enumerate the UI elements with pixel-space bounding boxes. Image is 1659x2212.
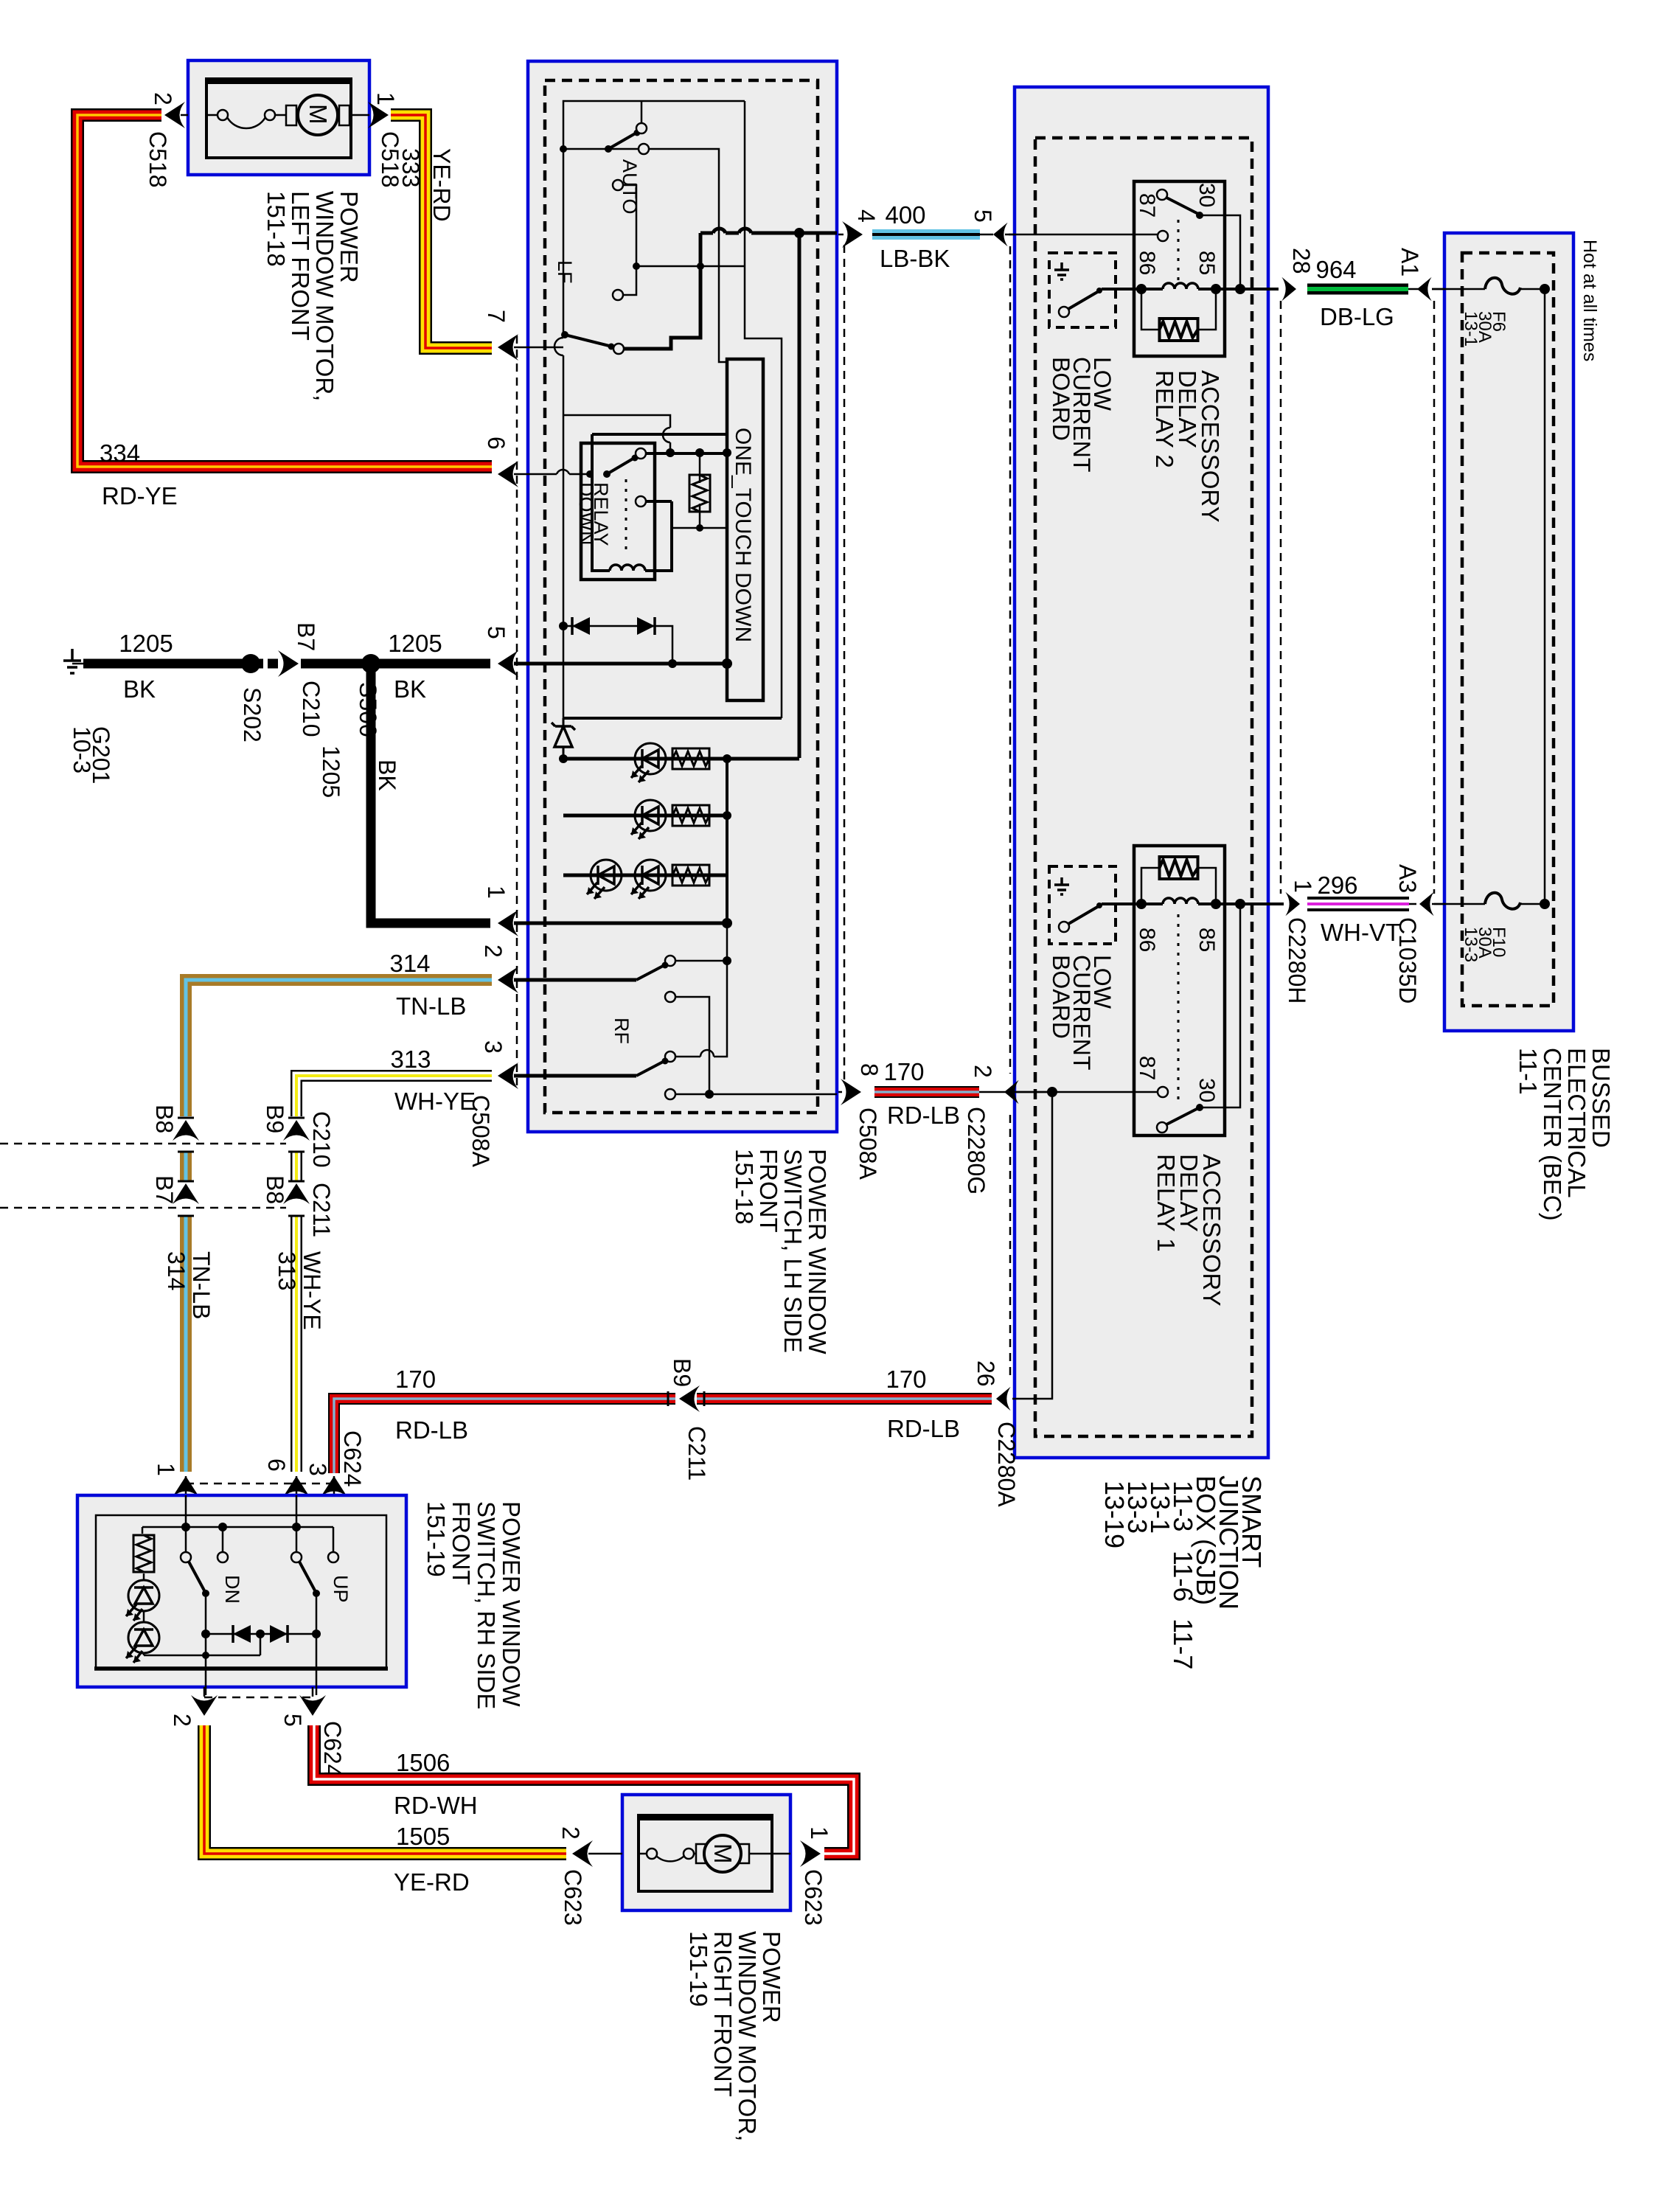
pin 1 internal wire <box>514 918 732 928</box>
svg-text:BK: BK <box>394 675 426 703</box>
RF blade up <box>514 978 636 982</box>
wire 313 WH-YE segment C210-C211 <box>291 1152 302 1180</box>
svg-text:POWER WINDOW: POWER WINDOW <box>804 1149 831 1354</box>
motor RF armature M <box>704 1835 741 1872</box>
svg-text:B7: B7 <box>151 1175 178 1204</box>
label ACCESSORY DELAY RELAY 2 <box>1151 370 1224 523</box>
svg-text:13-1: 13-1 <box>1461 311 1481 347</box>
label ACCESSORY DELAY RELAY 1 <box>1152 1154 1225 1307</box>
svg-text:RD-LB: RD-LB <box>887 1102 960 1129</box>
svg-text:1: 1 <box>806 1826 832 1840</box>
svg-text:B7: B7 <box>293 622 319 651</box>
accessory delay relay 2 <box>1009 181 1279 356</box>
svg-text:TN-LB: TN-LB <box>188 1251 215 1319</box>
svg-text:28: 28 <box>1288 248 1315 274</box>
connector C2280 dashed line right <box>1280 301 1282 894</box>
connector dashed lines C210 C211 between wires <box>0 1143 286 1145</box>
connector arrow B7 C210 <box>278 650 299 677</box>
LF/AUTO switch assembly rect <box>554 101 782 718</box>
svg-text:1: 1 <box>1290 880 1316 893</box>
wires relay down to one touch <box>592 434 731 532</box>
svg-text:11-6: 11-6 <box>1168 1551 1198 1601</box>
LED row B <box>563 800 731 839</box>
svg-text:3: 3 <box>305 1463 331 1476</box>
relay 2 resistor <box>1141 289 1216 330</box>
svg-text:C508A: C508A <box>855 1107 881 1180</box>
low current board 1 <box>1049 866 1116 944</box>
svg-text:DN: DN <box>221 1575 243 1604</box>
svg-text:YE-RD: YE-RD <box>428 148 455 222</box>
one touch down module box <box>727 359 763 700</box>
motor LF armature M <box>298 95 338 135</box>
ground G201 <box>63 649 83 673</box>
connector caps and arrows B8/B7 on 314 <box>173 1118 199 1216</box>
label LOW CURRENT BOARD 1 <box>1048 955 1116 1070</box>
svg-text:334: 334 <box>100 439 140 467</box>
connector arrow pin 5 <box>498 650 518 677</box>
svg-text:C623: C623 <box>800 1869 827 1926</box>
left rail lower section <box>563 717 782 720</box>
connector arrow pin 1 C518 <box>368 102 389 128</box>
smart junction box (SJB) <box>1015 87 1268 1458</box>
label POWER WINDOW SWITCH, RH SIDE FRONT 151-19 <box>422 1501 525 1709</box>
connector C2280 dashed line left <box>1009 246 1012 1380</box>
svg-text:C624: C624 <box>319 1721 346 1778</box>
connector arrow pin 5 SJB <box>993 223 1008 246</box>
AUTO/LF middle contacts <box>613 180 745 300</box>
svg-text:1506: 1506 <box>396 1749 450 1776</box>
svg-text:11-1: 11-1 <box>1514 1048 1542 1095</box>
relay down box <box>581 434 672 580</box>
svg-text:YE-RD: YE-RD <box>394 1868 470 1896</box>
svg-text:POWER: POWER <box>758 1931 785 2023</box>
connector arrow pin 8 <box>841 1079 861 1105</box>
wire 1205 BK branch to pin 1 <box>371 664 490 923</box>
svg-text:WH-YE: WH-YE <box>299 1251 325 1330</box>
wire 296 WH-VT <box>1307 897 1445 911</box>
svg-text:1205: 1205 <box>119 630 173 657</box>
relay down actuator dotted link <box>625 479 627 552</box>
svg-text:A1: A1 <box>1397 248 1423 276</box>
fuse F6 30A <box>1432 278 1550 294</box>
connector arrow pin 4 <box>842 221 863 248</box>
svg-text:UP: UP <box>330 1575 352 1603</box>
internal bus <box>142 1526 333 1528</box>
connector C624 dashed line bottom <box>204 1697 313 1699</box>
motor LF brushes <box>286 105 296 125</box>
motor RF wiring <box>639 1853 647 1855</box>
svg-text:B8: B8 <box>262 1175 288 1204</box>
svg-text:151-18: 151-18 <box>731 1149 758 1225</box>
svg-text:6: 6 <box>263 1458 290 1472</box>
connector arrow A1 <box>1417 277 1432 301</box>
svg-text:10-3: 10-3 <box>69 726 95 773</box>
wire 1505 YE-RD <box>204 1725 566 1854</box>
svg-text:RIGHT FRONT: RIGHT FRONT <box>709 1931 737 2097</box>
connector C508A dashed line left <box>516 335 518 1085</box>
connector arrow pin 1 C2280H <box>1285 892 1300 916</box>
svg-text:170: 170 <box>886 1366 926 1393</box>
svg-text:C518: C518 <box>145 131 171 188</box>
svg-text:11-7: 11-7 <box>1168 1618 1198 1669</box>
svg-text:LB-BK: LB-BK <box>880 245 950 272</box>
svg-text:C2280H: C2280H <box>1284 917 1310 1004</box>
svg-text:RELAY 1: RELAY 1 <box>1152 1154 1180 1252</box>
svg-text:M: M <box>709 1843 737 1864</box>
svg-text:400: 400 <box>885 201 925 229</box>
svg-text:85: 85 <box>1194 251 1219 275</box>
svg-text:1205: 1205 <box>318 745 344 798</box>
svg-text:BK: BK <box>374 759 400 791</box>
svg-text:2: 2 <box>150 92 176 105</box>
relay 1 coil <box>1102 902 1163 905</box>
svg-text:A3: A3 <box>1394 864 1421 893</box>
svg-text:B9: B9 <box>262 1105 288 1133</box>
bussed electrical center (BEC) box <box>1444 233 1573 1031</box>
wire 334 RD-YE <box>77 115 492 467</box>
wire 333 YE-RD <box>391 115 492 348</box>
svg-text:LEFT FRONT: LEFT FRONT <box>287 191 314 341</box>
svg-text:4: 4 <box>853 209 880 223</box>
svg-text:C210: C210 <box>308 1111 335 1168</box>
svg-text:C624: C624 <box>339 1430 366 1487</box>
svg-text:POWER: POWER <box>335 191 363 283</box>
svg-text:WINDOW MOTOR,: WINDOW MOTOR, <box>734 1931 761 2141</box>
LED common rail <box>726 759 728 923</box>
svg-text:FRONT: FRONT <box>755 1149 782 1233</box>
wire 314 TN-LB segment C210-C211 <box>180 1152 192 1180</box>
svg-text:13-19: 13-19 <box>1099 1481 1130 1548</box>
label POWER WINDOW SWITCH, LH SIDE FRONT 151-18 <box>731 1149 831 1354</box>
svg-text:5: 5 <box>279 1714 306 1727</box>
connector arrows into RH switch top <box>153 1458 347 1497</box>
connector arrow pin 1 C623 <box>800 1840 821 1867</box>
svg-text:C623: C623 <box>560 1869 586 1926</box>
label SMART JUNCTION BOX (SJB) refs <box>1099 1475 1267 1669</box>
svg-text:151-19: 151-19 <box>422 1501 450 1577</box>
pin 5 internal wire <box>514 658 732 669</box>
wire 314 TN-LB lower vertical <box>180 1217 192 1472</box>
relay 2 pin 87 contact <box>1009 234 1158 236</box>
svg-text:B8: B8 <box>151 1105 178 1133</box>
diode pair row <box>559 617 677 668</box>
svg-text:87: 87 <box>1135 193 1159 218</box>
bus wire (hot feed) <box>1544 289 1546 904</box>
svg-text:313: 313 <box>274 1251 300 1290</box>
LED row A <box>559 743 799 782</box>
power window switch RH side front box <box>77 1495 406 1695</box>
svg-text:BOARD: BOARD <box>1048 955 1074 1039</box>
svg-text:313: 313 <box>390 1046 431 1073</box>
contacts <box>181 1552 191 1562</box>
svg-text:C2280G: C2280G <box>963 1107 990 1194</box>
svg-text:C211: C211 <box>308 1183 335 1237</box>
LH switch pin arrows left side <box>467 310 518 1168</box>
svg-text:RF: RF <box>611 1018 633 1044</box>
svg-text:151-19: 151-19 <box>685 1931 712 2007</box>
svg-text:13-3: 13-3 <box>1461 927 1481 962</box>
svg-text:C211: C211 <box>684 1426 710 1481</box>
relay down coil <box>592 434 610 571</box>
svg-text:5: 5 <box>483 626 509 639</box>
svg-text:964: 964 <box>1315 256 1356 283</box>
svg-text:170: 170 <box>883 1058 924 1085</box>
svg-text:DOWN: DOWN <box>575 482 597 545</box>
svg-text:86: 86 <box>1135 251 1159 275</box>
svg-text:30: 30 <box>1194 1078 1219 1102</box>
ground symbol LCB2 <box>1054 262 1069 279</box>
svg-text:RD-WH: RD-WH <box>394 1792 478 1819</box>
UP switch blade <box>299 1562 315 1590</box>
svg-text:2: 2 <box>970 1065 996 1078</box>
svg-text:1: 1 <box>153 1463 179 1476</box>
LCB1 switch <box>1059 922 1069 932</box>
LED row C <box>563 860 727 899</box>
relay 1 actuator dotted link <box>1178 914 1180 1105</box>
svg-text:TN-LB: TN-LB <box>396 992 466 1020</box>
wire 1205 BK ground run <box>83 659 490 669</box>
relay 2 actuator dotted link <box>1178 220 1180 282</box>
LCB2 switch <box>1059 307 1069 317</box>
connector arrow A3 C1035D <box>1419 892 1434 916</box>
connector C624 dashed line top <box>186 1483 331 1485</box>
connector arrow pin 6 <box>498 461 518 487</box>
wire 400 LB-BK colored segment <box>837 229 1015 240</box>
svg-text:WH-YE: WH-YE <box>394 1088 476 1115</box>
svg-text:7: 7 <box>483 310 509 323</box>
svg-text:WINDOW MOTOR,: WINDOW MOTOR, <box>311 191 338 401</box>
svg-text:C210: C210 <box>298 681 324 737</box>
svg-text:333: 333 <box>397 148 424 187</box>
connector arrow pin 1 <box>498 910 518 936</box>
relay 2 coil <box>1102 288 1163 291</box>
connector arrow B9 C211 mid-wire <box>679 1385 700 1412</box>
connector arrows RH switch bottom C624 <box>169 1687 346 1778</box>
LF switch <box>561 233 700 354</box>
connector C508A dashed line right <box>844 245 846 1082</box>
splice S202 <box>241 654 260 673</box>
wire 313 WH-YE horizontal from pin 3 <box>296 1076 492 1116</box>
svg-text:RD-YE: RD-YE <box>102 482 178 509</box>
svg-text:B9: B9 <box>669 1358 695 1387</box>
power window motor right front box <box>622 1795 790 1910</box>
pin 7 internal wire <box>514 347 563 349</box>
svg-text:2: 2 <box>480 945 507 958</box>
connector arrow pin 2 C623 <box>572 1840 593 1867</box>
connector C1035D dashed line <box>1433 301 1436 894</box>
wire from AUTO area down x909 <box>563 415 670 451</box>
resistor below one touch <box>699 453 701 528</box>
svg-text:M: M <box>305 104 332 125</box>
connector arrow pin 26 C2280A <box>996 1387 1011 1411</box>
svg-text:ONE_TOUCH DOWN: ONE_TOUCH DOWN <box>731 428 755 642</box>
svg-text:30: 30 <box>1194 183 1219 207</box>
svg-text:C2280A: C2280A <box>993 1422 1020 1507</box>
vertical feed x1084 to LED row A <box>798 233 801 758</box>
svg-text:SWITCH, LH SIDE: SWITCH, LH SIDE <box>779 1149 807 1353</box>
svg-text:BUSSED: BUSSED <box>1587 1048 1615 1148</box>
svg-text:RD-LB: RD-LB <box>395 1416 468 1444</box>
relay down switch <box>586 470 594 478</box>
svg-text:6: 6 <box>483 437 509 450</box>
svg-text:87: 87 <box>1135 1056 1159 1080</box>
relay 1 pin 87 contact <box>1012 1091 1158 1093</box>
svg-text:5: 5 <box>970 209 996 223</box>
svg-text:86: 86 <box>1135 928 1159 952</box>
svg-text:RELAY 2: RELAY 2 <box>1151 370 1178 468</box>
relay 1 resistor <box>1141 868 1216 904</box>
connector arrow pin 2 <box>498 967 518 993</box>
svg-text:1505: 1505 <box>396 1823 450 1850</box>
connector arrow pin 2 C518 <box>164 102 185 128</box>
ground symbol LCB1 <box>1054 877 1069 894</box>
diode row <box>206 1633 316 1635</box>
svg-text:1: 1 <box>483 886 509 899</box>
power window switch LH side front box <box>528 61 837 1132</box>
power window motor left front box <box>188 60 369 175</box>
svg-text:BOARD: BOARD <box>1048 357 1074 441</box>
relay 2 pin 30 switch blade <box>1157 189 1167 200</box>
low current board 2 <box>1049 253 1116 327</box>
svg-text:LF: LF <box>554 260 576 284</box>
svg-text:RD-LB: RD-LB <box>887 1415 960 1442</box>
wire 170 RD-LB bottom run <box>334 1391 992 1473</box>
label BUSSED ELECTRICAL CENTER (BEC) 11-1 <box>1514 1048 1615 1221</box>
connector caps and arrows B9/B8 on 313 <box>283 1118 310 1216</box>
zener diode <box>552 718 575 759</box>
svg-text:314: 314 <box>163 1251 189 1290</box>
svg-text:1: 1 <box>372 92 399 105</box>
wire from relay1 87 down to pin 26 <box>1012 1092 1052 1399</box>
svg-text:S202: S202 <box>239 687 265 742</box>
wire 314 TN-LB horizontal from pin 2 <box>186 980 492 1116</box>
svg-text:151-18: 151-18 <box>262 191 290 267</box>
label POWER WINDOW MOTOR, LEFT FRONT 151-18 <box>262 191 363 401</box>
connector arrow pin 28 <box>1281 277 1296 301</box>
wire 964 DB-LG <box>1307 284 1445 295</box>
svg-text:170: 170 <box>395 1366 436 1393</box>
svg-text:2: 2 <box>557 1826 584 1840</box>
svg-text:WH-VT: WH-VT <box>1321 919 1400 946</box>
splice S500 <box>361 654 380 673</box>
wire 313 WH-YE lower vertical <box>291 1217 302 1472</box>
connector arrow pin 3 <box>498 1062 518 1089</box>
svg-text:26: 26 <box>973 1360 999 1387</box>
wire 170 RD-LB pin8 to pin2 <box>837 1086 1052 1098</box>
pin 6 internal wire with hop <box>514 470 590 474</box>
svg-text:FRONT: FRONT <box>448 1501 475 1585</box>
svg-text:314: 314 <box>389 950 430 977</box>
svg-text:ELECTRICAL: ELECTRICAL <box>1563 1048 1590 1198</box>
connector arrow pin 2 C2280G <box>1004 1080 1019 1104</box>
svg-text:8: 8 <box>856 1063 883 1077</box>
svg-text:3: 3 <box>480 1040 507 1054</box>
label RELAY DOWN <box>575 482 612 546</box>
svg-text:Hot at all times: Hot at all times <box>1579 240 1600 361</box>
svg-text:1205: 1205 <box>388 630 442 657</box>
accessory delay relay 1 <box>1012 846 1284 1135</box>
motor RF brushes <box>696 1844 706 1863</box>
AUTO switch <box>560 101 727 362</box>
wire 1506 RD-WH <box>314 1725 854 1854</box>
svg-text:POWER WINDOW: POWER WINDOW <box>498 1501 525 1707</box>
DN switch blade <box>189 1562 204 1590</box>
motor LF wiring <box>206 114 218 116</box>
label LOW CURRENT BOARD 2 <box>1048 357 1116 472</box>
svg-text:SWITCH, RH SIDE: SWITCH, RH SIDE <box>473 1501 500 1709</box>
fuse F10 30A <box>1432 893 1550 909</box>
svg-text:85: 85 <box>1194 928 1219 952</box>
label POWER WINDOW MOTOR, RIGHT FRONT 151-19 <box>685 1931 785 2141</box>
thick wire to pin 4 with hops <box>700 228 837 238</box>
relay 1 pin 30 switch blade <box>1157 1122 1167 1133</box>
LED chain <box>142 1527 144 1534</box>
svg-text:DB-LG: DB-LG <box>1320 303 1394 330</box>
RF blade down <box>514 1074 636 1078</box>
svg-text:CENTER (BEC): CENTER (BEC) <box>1539 1048 1566 1221</box>
connector arrow pin 7 <box>498 334 518 361</box>
svg-text:296: 296 <box>1317 872 1357 899</box>
svg-text:BK: BK <box>123 675 156 703</box>
svg-text:2: 2 <box>169 1714 195 1727</box>
RF switch group <box>514 923 837 1099</box>
